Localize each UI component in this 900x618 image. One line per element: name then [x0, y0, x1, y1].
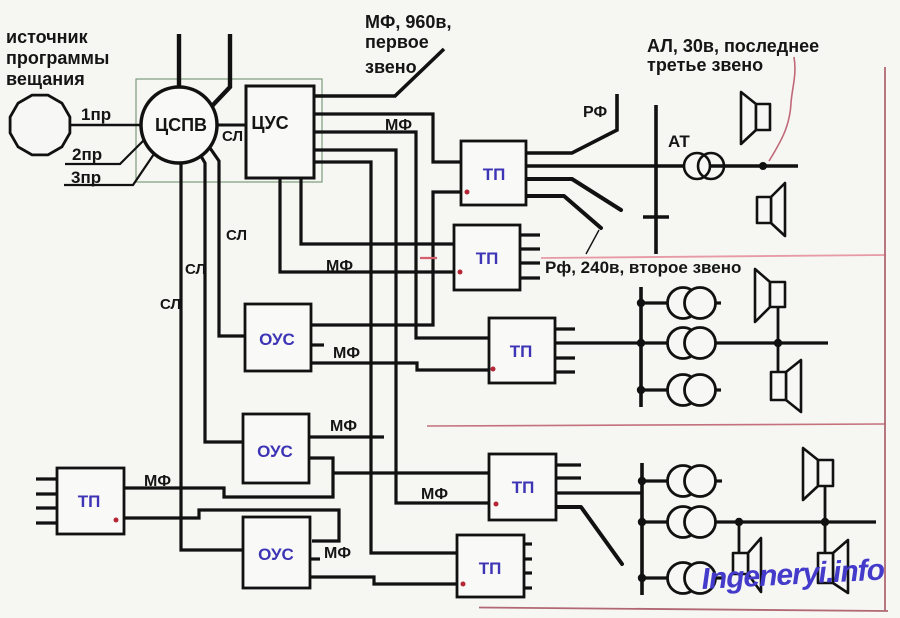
svg-text:ОУС: ОУС — [257, 442, 293, 461]
svg-text:ЦУС: ЦУС — [251, 113, 288, 133]
wire ОУС3 МФ stub — [310, 557, 320, 560]
junction dot bus3 row2 — [638, 518, 646, 526]
svg-text:МФ: МФ — [326, 258, 353, 275]
svg-text:звено: звено — [365, 57, 417, 77]
red dot ТП4 — [494, 502, 499, 507]
bus2 row1 right stub — [713, 301, 721, 304]
ЦСПВ circle — [141, 87, 217, 163]
transformer bus2 row2 — [668, 328, 716, 359]
wire ТП3 right stub 1 — [555, 327, 575, 330]
red bottom border — [479, 608, 888, 612]
svg-text:ТП: ТП — [512, 478, 535, 497]
svg-text:третье звено: третье звено — [647, 55, 763, 75]
bus3 row1 right stub — [713, 479, 722, 482]
wire ТП4 diagonal stub — [556, 507, 622, 564]
wire ЦУС out1 with diagonal to МФ 960в label — [314, 49, 444, 96]
svg-text:ТП: ТП — [483, 165, 506, 184]
wire 3пр bent line — [64, 151, 156, 185]
ТП2 box — [454, 225, 520, 290]
wire СЛ middle vertical to ОУС2 — [198, 151, 243, 442]
svg-text:2пр: 2пр — [72, 145, 102, 164]
wire speaker SP7 drop — [824, 522, 827, 553]
wire ЦУС bottom pin right to ТП2 input1 — [301, 178, 454, 244]
svg-text:ТП: ТП — [476, 249, 499, 268]
wire ТП5 right stub 1 — [524, 542, 532, 545]
wire from source circle to ЦСПВ — [70, 124, 142, 127]
junction dot bus3 speaker right — [821, 518, 829, 526]
wire ТП5 right stub 4 — [524, 586, 532, 589]
wire ОУС1 output up to ТП1 input2 — [311, 192, 461, 325]
speaker SP6 bus3 middle — [733, 538, 761, 592]
wire ЦУС out2 down to ТП1 input1 — [314, 114, 461, 162]
wire ТП4 right stub 1 — [556, 463, 581, 466]
wire long feeder line to ТП4 input1 — [333, 471, 489, 474]
wire ОУС2 МФ stub — [309, 435, 384, 438]
junction dot АЛ line — [759, 162, 767, 170]
svg-text:источник: источник — [6, 27, 89, 47]
wire ТП5 right stub 3 — [524, 571, 532, 574]
transformer bus3 row2 — [668, 507, 716, 538]
source circle источник — [10, 95, 70, 155]
ЦУС box — [246, 86, 314, 178]
transformer АТ — [684, 153, 724, 179]
svg-text:СЛ: СЛ — [222, 128, 243, 145]
bus3 row1 stub — [642, 479, 670, 482]
ОУС3 box — [243, 517, 310, 588]
svg-text:ОУС: ОУС — [259, 330, 295, 349]
wire ТП6 left stub 1 — [36, 477, 57, 480]
wire speaker SP6 drop — [738, 522, 741, 553]
wire ТП1 РФ output bent up — [526, 94, 617, 153]
red line второе звено — [541, 255, 886, 258]
junction dot bus3 speaker mid — [735, 518, 743, 526]
svg-text:МФ: МФ — [333, 345, 360, 362]
wire ТП3 main output to bus2 — [555, 341, 828, 344]
svg-text:СЛ: СЛ — [226, 227, 247, 244]
bus2 row3 right stub — [713, 388, 721, 391]
speaker SP5 bus3 top right — [803, 448, 833, 500]
svg-text:СЛ: СЛ — [160, 296, 181, 313]
bus3 row3 right stub — [713, 576, 722, 579]
svg-text:ЦСПВ: ЦСПВ — [155, 115, 207, 135]
svg-text:МФ: МФ — [385, 117, 412, 134]
bus2 row1 stub — [641, 301, 670, 304]
junction dot bus2 row2 — [637, 339, 645, 347]
wire 2пр bent line — [65, 137, 147, 164]
svg-text:АТ: АТ — [668, 132, 690, 151]
red dot ТП6 — [114, 518, 119, 523]
red dash left of ТП2 — [420, 257, 437, 259]
svg-text:МФ, 960в,: МФ, 960в, — [365, 12, 451, 32]
wire ТП6 left stub 3 — [36, 506, 57, 509]
ОУС1 box — [245, 304, 311, 371]
svg-text:МФ: МФ — [324, 545, 351, 562]
svg-text:ТП: ТП — [510, 342, 533, 361]
wire ТП2 right stub 2 — [520, 247, 540, 250]
ТП5 box — [457, 535, 524, 597]
red dot ТП2 — [458, 270, 463, 275]
wire speaker SP4 drop — [777, 343, 780, 372]
wire ОУС1 output to ТП3 input2 — [311, 363, 489, 370]
svg-text:СЛ: СЛ — [185, 261, 206, 278]
junction dot bus3 row1 — [638, 477, 646, 485]
svg-text:ТП: ТП — [479, 559, 502, 578]
wire vertical above ЦСПВ left — [177, 34, 181, 90]
wire vertical above ЦСПВ right bent — [212, 34, 230, 106]
svg-text:ТП: ТП — [78, 492, 101, 511]
red dot ТП3 — [491, 367, 496, 372]
red dot ТП1 — [465, 190, 470, 195]
wire ТП6 МФ output stepped with branch to ОУС2 pin — [124, 458, 333, 497]
wire speaker SP3 drop — [777, 307, 780, 343]
ТП1 box — [461, 141, 526, 205]
wire ТП2 right stub 3 — [520, 261, 540, 264]
svg-text:1пр: 1пр — [81, 105, 111, 124]
wire ТП4 main output to bus3 — [556, 491, 643, 494]
svg-text:Рф, 240в, второе звено: Рф, 240в, второе звено — [545, 258, 741, 277]
transformer bus3 row1 — [668, 466, 716, 497]
red line третье звено horizontal — [427, 424, 886, 426]
junction dot bus2 row3 — [637, 386, 645, 394]
svg-text:3пр: 3пр — [71, 168, 101, 187]
wire ОУС1 МФ stub — [311, 343, 324, 346]
junction dot bus2 speaker — [774, 339, 782, 347]
speaker SP3 bus2 top — [755, 269, 785, 322]
wire ТП2 right stub 1 — [520, 233, 540, 236]
wire СЛ long vertical to ОУС3 — [181, 158, 243, 550]
wire ЦУС out3 down to ТП3 input1 — [314, 132, 489, 338]
green boundary rectangle around central station — [136, 79, 322, 182]
svg-text:МФ: МФ — [330, 418, 357, 435]
ТП4 box — [489, 454, 556, 520]
wire АТ vertical bus — [654, 105, 658, 254]
wire ЦСПВ to ЦУС (СЛ) — [215, 124, 246, 127]
wire ЦУС out5 down to ТП5 input1 — [314, 162, 457, 553]
wire ТП3 right stub 2 — [555, 356, 575, 359]
wire ТП4 right stub 2 — [556, 476, 581, 479]
svg-text:вещания: вещания — [6, 69, 85, 89]
svg-text:РФ: РФ — [583, 104, 607, 121]
wire ЦУС bottom pin left МФ to ТП2 input2 — [280, 178, 454, 272]
junction dot bus2 row1 — [637, 299, 645, 307]
transformer bus3 row3 — [668, 563, 716, 594]
wire ЦУС out4 down to ТП4 input2 — [314, 150, 489, 503]
red curve from АЛ label to junction — [769, 57, 795, 161]
wire ТП1 diagonal stub 2 — [526, 196, 601, 228]
red vertical border right — [884, 67, 886, 611]
wire ТП3 right stub 3 — [555, 370, 575, 373]
transformer bus2 row1 — [668, 288, 716, 319]
thin pointer from Рф 240в label to wire — [586, 230, 599, 254]
speaker SP7 bus3 bottom right — [818, 540, 848, 593]
svg-text:АЛ, 30в, последнее: АЛ, 30в, последнее — [647, 36, 819, 56]
wire ТП6 output2 stepped to ОУС3 right pin — [124, 510, 339, 541]
tick on АТ bus — [643, 215, 669, 219]
speaker SP2 below АЛ line — [757, 183, 785, 236]
ТП6 box — [57, 468, 124, 534]
junction dot bus3 row3 — [638, 574, 646, 582]
svg-text:программы: программы — [6, 48, 109, 68]
svg-text:МФ: МФ — [421, 486, 448, 503]
bus2 vertical — [639, 287, 643, 407]
svg-text:МФ: МФ — [144, 473, 171, 490]
svg-text:первое: первое — [365, 32, 429, 52]
wire ТП6 left stub 4 — [36, 521, 57, 524]
wire speaker SP5 drop — [824, 486, 827, 522]
wire ТП6 left stub 2 — [36, 492, 57, 495]
wire ТП5 right stub 2 — [524, 557, 532, 560]
ОУС2 box — [243, 414, 309, 483]
ТП3 box — [489, 318, 555, 383]
speaker SP1 top of АЛ line — [741, 92, 770, 144]
wire ТП1 main МФ line to АЛ junction — [526, 164, 798, 167]
bus3 row2 main line — [642, 520, 876, 523]
bus2 row3 stub — [641, 388, 670, 391]
svg-text:ОУС: ОУС — [258, 545, 294, 564]
transformer bus2 row3 — [668, 375, 716, 406]
wire ОУС3 output to ТП5 input2 — [310, 577, 457, 584]
wire СЛ right vertical to ОУС1 — [210, 148, 245, 336]
wire ТП2 right stub 4 — [520, 276, 540, 279]
bus3 vertical — [640, 463, 644, 595]
wire ТП1 diagonal stub 1 — [526, 179, 621, 210]
bus3 row3 stub — [642, 576, 670, 579]
speaker SP4 bus2 bottom — [771, 360, 801, 412]
red dot ТП5 — [461, 582, 466, 587]
